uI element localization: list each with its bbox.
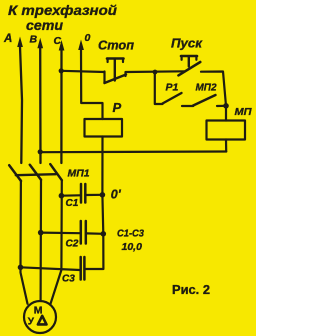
svg-text:У: У (28, 317, 35, 328)
svg-text:0: 0 (85, 32, 91, 44)
svg-text:МП: МП (235, 106, 252, 118)
svg-text:К трехфазной: К трехфазной (8, 2, 117, 18)
svg-text:В: В (30, 34, 38, 46)
svg-text:Пуск: Пуск (171, 36, 203, 51)
svg-text:сети: сети (26, 17, 63, 33)
svg-text:С1-С3: С1-С3 (117, 228, 144, 240)
svg-text:С1: С1 (66, 198, 79, 209)
svg-text:С3: С3 (62, 274, 75, 285)
svg-text:10,0: 10,0 (122, 241, 143, 253)
svg-text:0': 0' (111, 188, 122, 202)
svg-text:МП2: МП2 (196, 82, 217, 94)
svg-text:Р1: Р1 (166, 82, 179, 94)
svg-text:А: А (3, 33, 12, 45)
svg-text:С2: С2 (66, 239, 79, 250)
svg-text:Р: Р (113, 100, 122, 115)
svg-text:С: С (54, 35, 62, 47)
svg-text:МП1: МП1 (68, 168, 90, 180)
svg-text:Стоп: Стоп (98, 38, 134, 53)
svg-text:М: М (34, 304, 43, 316)
svg-text:Рис. 2: Рис. 2 (172, 282, 210, 297)
